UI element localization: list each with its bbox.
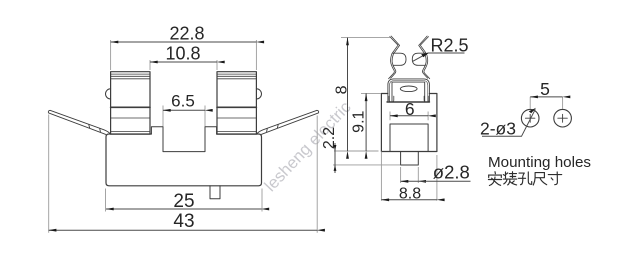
side view body [381, 94, 437, 152]
side view right foot [424, 96, 429, 102]
svg-text:R2.5: R2.5 [431, 36, 469, 56]
right wing [257, 110, 319, 134]
svg-text:Mounting holes: Mounting holes [488, 154, 591, 171]
dim 9.1 [365, 93, 367, 151]
dim o2.8 [401, 180, 419, 182]
left clip top band lines [111, 74, 150, 79]
dim 25 [106, 208, 262, 210]
side view right arm [419, 36, 430, 79]
left clip [111, 72, 150, 135]
svg-text:8: 8 [334, 85, 351, 94]
char cun [548, 172, 561, 185]
char kong [518, 172, 531, 185]
side view cap [388, 79, 430, 102]
svg-text:6: 6 [405, 99, 415, 119]
side view cavity [390, 124, 428, 152]
left wing [48, 110, 110, 134]
side view left dimple [393, 53, 406, 65]
side view inner plate line [387, 101, 430, 103]
svg-text:ø2.8: ø2.8 [433, 162, 470, 183]
mounting hole left circle [521, 109, 539, 127]
dim 5 [530, 96, 562, 98]
front view body [106, 134, 262, 186]
svg-text:22.8: 22.8 [169, 23, 204, 43]
extension lines [49, 38, 563, 233]
svg-text:2.2: 2.2 [321, 127, 338, 149]
right clip mid lines [217, 106, 256, 108]
svg-text:9.1: 9.1 [351, 110, 368, 132]
char chi [533, 173, 546, 185]
side view left foot [389, 96, 394, 102]
svg-text:lesheng electric: lesheng electric [261, 98, 355, 196]
crosshair left [525, 114, 535, 122]
dim 6 [390, 115, 428, 117]
dim 8.8 [381, 199, 437, 201]
right clip bump [256, 89, 261, 99]
char zhuang [503, 172, 516, 185]
dimension lines with arrows [49, 38, 563, 231]
dim 8 [347, 38, 349, 151]
front view plateau [151, 127, 216, 134]
dim 22.8 [111, 41, 257, 43]
left clip bump [106, 89, 111, 99]
dimension texts [165, 23, 591, 232]
side view right dimple [412, 53, 425, 65]
side view pin [401, 152, 419, 166]
side view left arm [389, 36, 400, 79]
char an [488, 172, 501, 186]
front view bottom pin [210, 186, 220, 199]
svg-text:25: 25 [173, 191, 194, 212]
svg-text:43: 43 [173, 211, 194, 232]
leader 2-o3 [482, 109, 535, 136]
mounting hole right circle [554, 109, 572, 127]
right clip [217, 72, 256, 135]
dim 2.2 [334, 143, 336, 173]
side view ellipse hole [400, 86, 417, 92]
dim 10.8 [150, 61, 217, 63]
side view fuse end plate [392, 82, 425, 102]
front view notch [163, 127, 205, 152]
text CJK mounting hole size [488, 172, 561, 186]
svg-text:8.8: 8.8 [399, 186, 421, 203]
leader R2.5 [412, 53, 464, 62]
svg-text:6.5: 6.5 [171, 91, 195, 110]
svg-text:10.8: 10.8 [165, 43, 200, 63]
crosshair right [558, 114, 568, 122]
dim 43 [49, 229, 318, 231]
dim 6.5 [163, 109, 205, 111]
left clip mid lines [111, 106, 150, 108]
svg-text:5: 5 [540, 79, 550, 99]
right clip top band lines [217, 74, 256, 79]
svg-text:2-ø3: 2-ø3 [480, 118, 516, 138]
